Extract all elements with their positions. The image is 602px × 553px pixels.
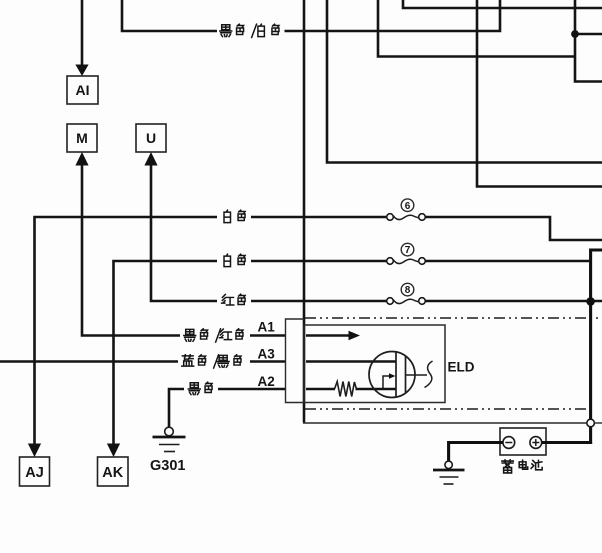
arrowhead into M bbox=[75, 152, 88, 166]
ELD case outline top (dash-dot) bbox=[305, 317, 602, 319]
fuse 7 bbox=[387, 243, 426, 264]
svg-text:6: 6 bbox=[405, 201, 411, 212]
battery feed vertical wire x=590.6 bbox=[591, 250, 602, 419]
arrowhead into AJ bbox=[28, 444, 41, 458]
A2 wire into resistor bbox=[306, 388, 335, 391]
wire red row y=301 from U connector vertical bbox=[151, 166, 217, 302]
wire black/white continuing right then up to top edge bbox=[285, 0, 501, 31]
wire from top at x=477 turning right at y=186.5 bbox=[477, 0, 602, 187]
svg-text:8: 8 bbox=[405, 285, 411, 296]
transistor Q (ELD sensor) bbox=[369, 352, 427, 398]
resistor inside ELD bbox=[335, 382, 357, 397]
wire label 蓝色/黑色 (blue/black) bbox=[182, 355, 241, 368]
battery positive wire to feed vertical bbox=[542, 443, 591, 445]
wire A3 to ELD connector bbox=[250, 360, 286, 363]
wire resistor to transistor bbox=[356, 388, 397, 391]
connector AJ bbox=[20, 457, 50, 486]
fuse 8 bbox=[387, 283, 426, 304]
wire from top at x=327 turning right at y=162 bbox=[327, 0, 602, 163]
battery negative wire to ground bbox=[449, 443, 503, 462]
wire after fuse 8 through junction to right edge bbox=[425, 300, 602, 303]
wire black row A2 from ground riser bbox=[169, 389, 184, 427]
wire label 白色 (white) row 7 bbox=[224, 254, 245, 266]
wire white row towards fuse 7 bbox=[251, 260, 387, 263]
fuse 6 bbox=[387, 199, 426, 220]
battery label 蓄电池 bbox=[502, 460, 542, 473]
svg-text:M: M bbox=[76, 130, 88, 146]
wire A1 to ELD connector bbox=[250, 334, 286, 337]
wire label 红色 (red) bbox=[222, 294, 245, 305]
wire from top at x=403 turning right at y=8 bbox=[403, 0, 602, 8]
wire after fuse 7 to vertical battery wire bbox=[425, 260, 589, 263]
svg-text:ELD: ELD bbox=[448, 360, 475, 375]
battery ground symbol bbox=[433, 461, 465, 484]
branch wire right from junction at (575,34) bbox=[575, 33, 602, 36]
thin wire y=423 from main vertical to connector circle and right edge bbox=[303, 422, 587, 424]
svg-text:AI: AI bbox=[76, 82, 90, 98]
A1 sense arrow inside ELD bbox=[306, 334, 350, 337]
wire white row towards fuse 6 bbox=[251, 216, 387, 219]
wire white row y=217, left corner down to AJ bbox=[35, 217, 218, 444]
connector AK bbox=[98, 457, 129, 486]
ELD unit box bbox=[304, 325, 445, 403]
arrowhead into AI bbox=[75, 65, 88, 77]
wire A2 to ELD connector bbox=[218, 388, 286, 391]
svg-text:7: 7 bbox=[405, 245, 411, 256]
A3 wire into transistor bbox=[306, 360, 396, 363]
connector AI bbox=[67, 76, 98, 104]
ELD case outline bottom (dash-dot) bbox=[305, 408, 589, 410]
svg-text:A3: A3 bbox=[258, 347, 276, 362]
wire label 黑色/红色 (black/red) bbox=[184, 329, 243, 342]
wire red row towards fuse 8 bbox=[251, 300, 387, 303]
connector U bbox=[136, 124, 166, 152]
wire from top at x=575 down, corner right at y=81.5 bbox=[575, 0, 602, 82]
battery 蓄电池 bbox=[500, 428, 546, 455]
svg-text:A1: A1 bbox=[258, 320, 276, 335]
wire label 黑色/白色 (black/white) bbox=[220, 24, 279, 37]
wire white row y=261, left corner down to AK bbox=[114, 261, 218, 444]
squiggle lead to ELD label bbox=[425, 361, 433, 388]
junction dot at (590.6,301) bbox=[586, 297, 595, 306]
svg-text:AK: AK bbox=[102, 465, 123, 481]
svg-text:AJ: AJ bbox=[25, 465, 44, 481]
svg-text:G301: G301 bbox=[150, 458, 185, 474]
wire label 白色 (white) row 6 bbox=[224, 210, 245, 222]
wire label 黑色 (black) bbox=[188, 382, 212, 394]
svg-text:A2: A2 bbox=[258, 374, 275, 389]
inline connector circle at (590.6,423) bbox=[587, 419, 595, 427]
wire after fuse 6 stepping down to right edge bbox=[425, 217, 602, 240]
ground G301 symbol bbox=[153, 427, 186, 451]
arrowhead into U bbox=[144, 152, 157, 166]
wire black/red row A1 from M connector vertical bbox=[82, 166, 180, 336]
arrowhead into AK bbox=[107, 444, 120, 458]
ELD connector bracket bbox=[286, 319, 305, 403]
junction dot at (575,34) bbox=[571, 30, 579, 38]
main vertical wire at x=304 down to battery line bbox=[303, 0, 306, 423]
wire from top at x=378 turning right at y=56.5 into vertical x=575 bbox=[378, 0, 575, 57]
wire from top edge down to connector AI bbox=[81, 0, 84, 66]
wire black/white from top edge, corner to the right bbox=[122, 0, 217, 31]
svg-text:U: U bbox=[146, 130, 156, 146]
connector M bbox=[67, 124, 97, 152]
wire blue/black row A3 from left edge bbox=[0, 360, 178, 363]
